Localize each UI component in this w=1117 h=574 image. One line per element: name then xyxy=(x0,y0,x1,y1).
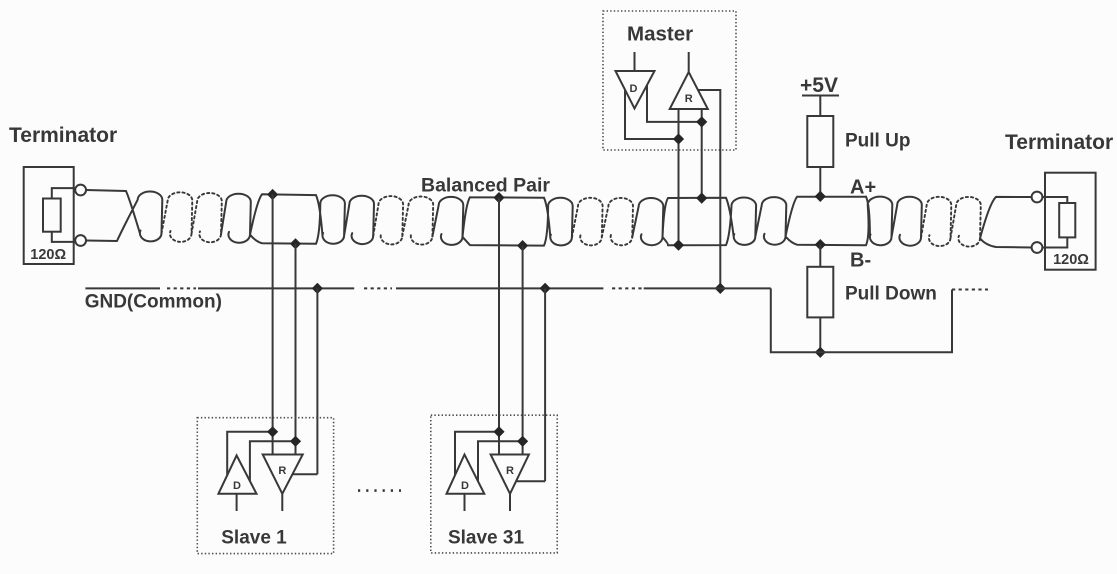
junction: master B- tap xyxy=(673,240,684,251)
svg-text:D: D xyxy=(630,83,638,95)
junction: slave31 GND tap xyxy=(540,283,551,294)
wire: slave31 D to A xyxy=(455,432,499,475)
wire: slave1 A drop xyxy=(272,195,274,455)
junction: D/R tie (left) xyxy=(673,133,684,144)
wire: slave1 GND drop xyxy=(316,288,318,474)
svg-text:Pull Up: Pull Up xyxy=(845,131,910,152)
wire: master ground reference xyxy=(698,90,720,288)
svg-text:+5V: +5V xyxy=(800,74,838,97)
terminal circle A (right) xyxy=(1032,192,1043,203)
power rail +5V bar xyxy=(802,95,839,97)
wire: R input pin to A+ bus xyxy=(701,109,703,198)
wire: D output to A line xyxy=(625,90,679,140)
wire: slave1 B drop xyxy=(295,244,297,455)
slave1 dotted box xyxy=(197,418,333,554)
junction: slave1 A+ tap xyxy=(267,189,278,200)
wire: slave1 D to B xyxy=(250,441,296,481)
svg-text:120Ω: 120Ω xyxy=(30,247,66,263)
svg-text:B-: B- xyxy=(850,250,871,272)
svg-text:Terminator: Terminator xyxy=(1005,131,1113,154)
pin: R output stub xyxy=(688,52,690,72)
wire: slave31 R gnd side xyxy=(516,480,545,482)
junction: slave1 B- tap xyxy=(290,238,301,249)
junction: slave31 tie B xyxy=(517,436,528,447)
wire GND dashed gaps xyxy=(167,287,642,289)
driver D (slave1) xyxy=(218,455,256,493)
svg-text:Terminator: Terminator xyxy=(9,124,117,147)
junction: pull-down on B- xyxy=(815,239,826,250)
receiver R (slave1) xyxy=(263,455,303,494)
terminal circle B (right) xyxy=(1032,242,1043,253)
svg-text:GND(Common): GND(Common) xyxy=(85,292,222,313)
wire: B- to pull-down xyxy=(819,245,821,267)
pin: slave31 D stub xyxy=(464,494,466,511)
junction: slave31 tie A xyxy=(493,426,504,437)
svg-text:A+: A+ xyxy=(850,177,876,199)
terminal circle A (left) xyxy=(75,185,86,196)
wire: GND detour under pull-down xyxy=(771,288,952,352)
wire: D output to B line xyxy=(647,85,702,122)
wire balanced-pair twisted bus (solid turns) xyxy=(86,190,1032,248)
ellipsis between slaves xyxy=(358,489,401,492)
svg-text:Master: Master xyxy=(627,23,693,46)
wire balanced-pair twisted bus (hidden/dotted turns) xyxy=(162,192,981,246)
svg-text:D: D xyxy=(461,480,469,492)
svg-text:Slave 1: Slave 1 xyxy=(221,528,287,549)
svg-text:R: R xyxy=(685,93,693,105)
junction: D/R tie (right) xyxy=(696,116,707,127)
driver D (master) xyxy=(616,71,655,109)
receiver R (slave31) xyxy=(491,455,529,494)
driver D (slave31) xyxy=(447,455,485,494)
resistor pull-up xyxy=(807,116,833,167)
master dotted box xyxy=(603,11,736,150)
resistor 120R (left terminator) xyxy=(43,199,61,232)
pin: D input stub xyxy=(634,52,636,71)
resistor 120R (right terminator) xyxy=(1059,203,1075,237)
wire: GND dotted continuation (right) xyxy=(952,289,988,291)
pin: slave31 R stub xyxy=(509,494,511,511)
terminator (left) box xyxy=(24,167,74,264)
pin: slave1 D stub xyxy=(236,494,238,511)
wire: slave31 D to B xyxy=(478,441,523,481)
svg-text:D: D xyxy=(233,480,241,492)
junction: master A+ tap xyxy=(696,193,707,204)
wire: pull-up to A+ xyxy=(819,167,821,196)
junction: pull-down GND xyxy=(815,347,826,358)
junction: slave1 tie A xyxy=(267,426,278,437)
wire GND(Common) main line xyxy=(85,287,770,289)
wire: R input pin to B- bus xyxy=(678,109,680,245)
terminator (right) box xyxy=(1045,173,1096,270)
svg-text:R: R xyxy=(278,465,286,477)
wire resistor leads (right) xyxy=(1042,197,1067,248)
svg-text:Slave 31: Slave 31 xyxy=(448,528,524,549)
wire: slave31 B drop xyxy=(522,246,524,455)
wire: slave31 A drop xyxy=(498,198,500,455)
receiver R (master) xyxy=(670,72,708,109)
wire: slave1 R gnd side xyxy=(292,473,317,475)
svg-text:Pull Down: Pull Down xyxy=(845,284,937,305)
resistor pull-down xyxy=(807,267,833,318)
pin: slave1 R stub xyxy=(281,494,283,511)
wire: +5V to pull-up xyxy=(819,96,821,117)
junction: master GND tap xyxy=(715,283,726,294)
junction: pull-up on A+ xyxy=(815,191,826,202)
wire: pull-down to ground xyxy=(819,317,821,352)
wire: slave31 GND drop xyxy=(544,288,546,481)
svg-text:Balanced Pair: Balanced Pair xyxy=(421,175,550,197)
svg-text:R: R xyxy=(506,465,514,477)
junction: slave1 tie B xyxy=(290,436,301,447)
junction: slave31 B- tap xyxy=(517,240,528,251)
slave31 dotted box xyxy=(431,415,557,553)
wire: slave1 D to A xyxy=(227,432,272,475)
svg-text:120Ω: 120Ω xyxy=(1053,252,1089,268)
junction: slave1 GND tap xyxy=(312,283,323,294)
wire resistor leads (left) xyxy=(52,188,75,242)
junction: slave31 A+ tap xyxy=(493,192,504,203)
terminal circle B (left) xyxy=(75,235,86,246)
